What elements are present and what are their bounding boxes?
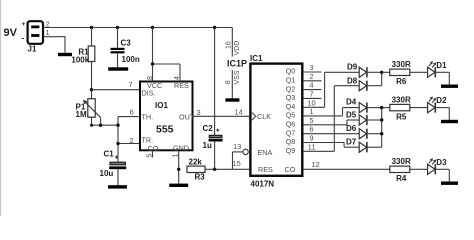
pin names Q0-Q9	[286, 67, 296, 155]
wire Q4 bracket to D9	[325, 72, 360, 107]
wire Q8 jog to D7	[344, 143, 359, 148]
timer IO1 555 box	[140, 82, 193, 151]
wire	[117, 169, 119, 185]
svg-text:D4: D4	[346, 97, 357, 106]
LED D1	[428, 61, 447, 78]
svg-text:10u: 10u	[100, 169, 114, 178]
svg-text:9V: 9V	[4, 27, 18, 39]
svg-text:D2: D2	[436, 96, 447, 105]
svg-text:Q3: Q3	[286, 93, 296, 102]
pin number 12	[311, 160, 319, 169]
wire	[435, 108, 449, 120]
svg-text:CLK: CLK	[257, 112, 271, 121]
pin number 5	[146, 154, 153, 158]
svg-text:IC1: IC1	[250, 54, 263, 63]
svg-text:CO: CO	[285, 165, 296, 174]
svg-text:R3: R3	[195, 173, 206, 182]
svg-text:7: 7	[309, 89, 313, 98]
svg-text:IC1P: IC1P	[227, 59, 247, 69]
plus mark	[22, 21, 26, 28]
svg-text:RES: RES	[174, 81, 189, 90]
svg-text:D6: D6	[346, 124, 357, 133]
svg-text:TH.: TH.	[142, 112, 154, 121]
node wiper	[99, 124, 102, 127]
diode D7	[346, 138, 367, 153]
ground	[58, 53, 72, 56]
svg-text:+: +	[216, 128, 220, 135]
svg-text:R5: R5	[396, 112, 407, 121]
wire Q5 jog to D4	[343, 108, 360, 116]
svg-text:9: 9	[309, 134, 313, 143]
pin name TR	[142, 135, 154, 144]
pin 2 label	[46, 20, 50, 29]
diode D6	[346, 124, 367, 139]
svg-text:1M: 1M	[76, 110, 87, 119]
wire	[117, 28, 119, 48]
wire	[214, 28, 216, 136]
potentiometer P1	[76, 99, 101, 120]
svg-text:12: 12	[311, 160, 319, 169]
node bus2 D4	[380, 106, 383, 109]
wire	[118, 117, 140, 162]
wire D5 cathode	[367, 119, 382, 121]
svg-text:D3: D3	[436, 158, 447, 167]
svg-text:ENA: ENA	[258, 148, 273, 157]
node P1 bottom	[90, 124, 93, 127]
svg-text:CO.: CO.	[148, 144, 161, 153]
svg-text:Q6: Q6	[286, 120, 296, 129]
svg-text:C1: C1	[104, 149, 115, 158]
pin name TH	[142, 112, 154, 121]
pin name ENA	[258, 148, 273, 157]
diode D5	[346, 111, 367, 125]
svg-text:D7: D7	[346, 138, 357, 147]
svg-text:D9: D9	[347, 62, 358, 71]
diode D8	[347, 76, 367, 91]
wire	[43, 36, 65, 53]
svg-text:1u: 1u	[203, 141, 212, 150]
LED D3	[428, 158, 447, 175]
svg-text:1: 1	[46, 28, 50, 37]
power label IC1P	[227, 59, 247, 69]
svg-text:4: 4	[309, 81, 313, 90]
svg-text:VSS: VSS	[234, 70, 241, 84]
svg-text:5: 5	[309, 116, 313, 125]
svg-text:Q2: Q2	[286, 84, 296, 93]
resistor R1	[71, 46, 94, 65]
IC label IO1	[155, 101, 168, 110]
svg-text:22k: 22k	[189, 157, 203, 166]
page edge line	[0, 0, 1, 216]
svg-text:3: 3	[309, 63, 313, 72]
pin number 15	[233, 159, 241, 168]
svg-text:C3: C3	[121, 38, 132, 47]
wire OUT to CLK	[193, 115, 251, 117]
svg-text:100k: 100k	[71, 56, 89, 65]
node rail-C3	[116, 26, 119, 29]
ground	[225, 98, 239, 101]
wire D8 cathode bus	[367, 72, 382, 85]
LED D2	[428, 96, 447, 113]
pin name CO	[148, 144, 161, 153]
wire D7 cathode bus	[367, 108, 382, 148]
pin name CO	[285, 165, 296, 174]
ENA bubble	[243, 149, 248, 154]
svg-text:OUT: OUT	[179, 112, 195, 121]
node rail-555	[151, 26, 154, 29]
capacitor C1	[100, 149, 127, 178]
svg-text:D1: D1	[436, 61, 447, 70]
wire D6 cathode	[367, 133, 382, 135]
node bus2 D5	[380, 118, 383, 121]
pin name VCC	[147, 81, 162, 90]
svg-text:2: 2	[309, 72, 313, 81]
wire	[410, 107, 428, 109]
wire	[435, 72, 449, 84]
pin number 14	[235, 107, 243, 116]
pin number 6	[130, 107, 134, 116]
wires Q outputs	[304, 72, 360, 151]
IC value 555	[156, 123, 174, 135]
wire	[153, 28, 181, 82]
ground	[441, 120, 458, 123]
svg-text:Q7: Q7	[286, 128, 296, 137]
pin number 13	[233, 142, 241, 151]
node bus1	[380, 71, 383, 74]
minus mark	[22, 33, 25, 42]
svg-text:2: 2	[130, 136, 134, 145]
pin name RES	[174, 81, 189, 90]
pin name DIS	[142, 89, 156, 98]
wire ENA	[233, 152, 243, 169]
wire D9 cathode	[367, 71, 382, 73]
svg-text:16: 16	[225, 41, 232, 49]
wire VCC rail	[43, 27, 232, 29]
pin name OUT	[179, 112, 195, 121]
counter IC1 4017 box	[250, 64, 302, 176]
svg-text:13: 13	[233, 142, 241, 151]
svg-text:6: 6	[130, 107, 134, 116]
pin number 4	[174, 76, 181, 80]
wire to R5	[382, 107, 390, 109]
svg-text:+: +	[22, 21, 26, 28]
connector J1	[28, 21, 44, 53]
ground	[108, 67, 128, 70]
pin number 3	[197, 108, 201, 117]
svg-text:11: 11	[308, 142, 316, 151]
svg-text:Q0: Q0	[286, 67, 296, 76]
svg-text:100n: 100n	[122, 55, 140, 64]
diode D4	[346, 97, 367, 112]
svg-text:D5: D5	[346, 111, 357, 120]
svg-text:7: 7	[129, 80, 133, 89]
label 9V	[4, 27, 18, 39]
ground	[441, 182, 458, 185]
node rail-C2	[213, 26, 216, 29]
pin name GND	[173, 143, 189, 152]
pin number 7	[129, 80, 133, 89]
svg-text:R6: R6	[396, 77, 407, 86]
resistor R4	[390, 157, 411, 183]
pin number 1	[172, 154, 179, 158]
svg-text:-: -	[22, 33, 25, 42]
wire	[92, 117, 119, 125]
resistor R5	[390, 95, 411, 121]
svg-text:RES: RES	[258, 165, 273, 174]
node bus2 D6	[380, 132, 383, 135]
pin name CLK	[257, 112, 271, 121]
svg-text:4017N: 4017N	[251, 179, 275, 188]
capacitor C3	[111, 38, 140, 64]
svg-text:330R: 330R	[392, 157, 411, 166]
diode D9	[347, 62, 367, 77]
wire	[91, 28, 93, 47]
IC label IC1	[250, 54, 263, 63]
svg-text:Q9: Q9	[286, 146, 296, 155]
resistor R6	[390, 60, 411, 86]
pin number 2	[130, 136, 134, 145]
svg-text:GND: GND	[173, 143, 189, 152]
wire	[205, 168, 251, 170]
node GND-R3	[177, 168, 180, 171]
pin name RES	[258, 165, 273, 174]
svg-text:D8: D8	[347, 76, 358, 85]
pin 1 label	[46, 28, 50, 37]
wire wiper	[100, 117, 102, 125]
node TR-C1	[116, 142, 119, 145]
power IC1P VDD	[225, 28, 241, 57]
ground	[169, 184, 188, 187]
svg-text:1: 1	[309, 107, 313, 116]
svg-text:555: 555	[156, 123, 174, 135]
svg-text:Q5: Q5	[286, 111, 296, 120]
wire	[410, 168, 428, 170]
wire CO to R4	[304, 168, 390, 170]
node TH-TR	[116, 124, 119, 127]
IC value 4017N	[251, 179, 275, 188]
node R3-C2-RES	[213, 168, 216, 171]
wire stub pin5	[152, 151, 154, 158]
svg-text:C2: C2	[203, 124, 214, 133]
clock triangle	[252, 113, 256, 121]
svg-text:Q8: Q8	[286, 137, 296, 146]
power IC1P VSS	[225, 70, 241, 98]
svg-text:IO1: IO1	[155, 101, 168, 110]
capacitor C2	[203, 124, 223, 150]
wire D4 cathode	[367, 107, 382, 109]
ground	[108, 185, 127, 188]
wire	[435, 169, 449, 181]
wire to R6	[382, 71, 390, 73]
svg-text:14: 14	[235, 107, 243, 116]
svg-text:15: 15	[233, 159, 241, 168]
wire	[117, 53, 119, 67]
wire	[214, 142, 216, 170]
svg-text:DIS.: DIS.	[142, 89, 156, 98]
svg-text:VDD: VDD	[234, 41, 241, 56]
svg-text:+: +	[115, 155, 119, 162]
node rail-R1	[90, 26, 93, 29]
svg-text:Q1: Q1	[286, 76, 296, 85]
svg-text:R4: R4	[396, 174, 407, 183]
wire	[410, 71, 428, 73]
svg-text:3: 3	[197, 108, 201, 117]
wire Q6 jog to D5	[347, 120, 359, 125]
node R1-P1-DIS	[90, 88, 93, 91]
svg-text:6: 6	[309, 125, 313, 134]
wire	[92, 89, 141, 91]
svg-text:8: 8	[225, 80, 232, 84]
pin numbers outputs	[307, 63, 315, 151]
svg-text:330R: 330R	[392, 60, 411, 69]
wire	[91, 62, 93, 99]
svg-text:330R: 330R	[392, 95, 411, 104]
pin number 8	[147, 76, 154, 80]
wire Q9 bus to D8	[334, 86, 359, 152]
node VCC-RES tie	[151, 62, 154, 65]
resistor R3	[187, 157, 205, 181]
wire	[178, 151, 180, 184]
ground	[441, 85, 458, 88]
svg-text:J1: J1	[28, 44, 37, 53]
